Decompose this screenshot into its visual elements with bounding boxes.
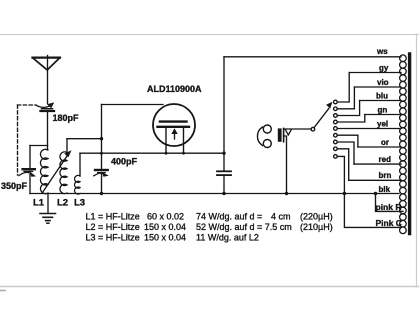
svg-text:(210µH): (210µH) xyxy=(300,222,333,232)
tapped coil core bar xyxy=(408,54,411,234)
wire contact6 to or xyxy=(337,135,358,147)
svg-text:L1: L1 xyxy=(33,198,45,209)
wire brn tap xyxy=(349,179,401,181)
node pink R junction xyxy=(374,192,377,195)
svg-text:gn: gn xyxy=(378,106,388,115)
gang dashed link vertical xyxy=(17,105,19,175)
wire L3 to phones line xyxy=(80,152,224,154)
svg-text:L3: L3 xyxy=(74,198,85,209)
wire contact7 to red xyxy=(337,142,354,164)
svg-text:brn: brn xyxy=(379,171,392,180)
wire gate top to transistor xyxy=(102,104,164,106)
trimmer capacitor 400pF xyxy=(94,170,109,177)
trimmer capacitor 180pF xyxy=(36,102,54,111)
tapped coil loops xyxy=(400,55,407,234)
wire L3 top lead xyxy=(79,153,81,176)
wire gate line xyxy=(67,138,102,140)
wire jack tip to switch xyxy=(284,128,311,130)
wire antenna stem xyxy=(47,56,49,104)
wire contact9 to blk xyxy=(337,156,344,193)
wire contact1 to gy xyxy=(337,73,349,103)
capacitor across phones xyxy=(217,171,231,175)
wire tank top rail xyxy=(30,145,48,147)
scan frame top line xyxy=(0,34,419,36)
wire output riser xyxy=(223,57,225,153)
inductor L1 xyxy=(40,149,48,193)
wire cap bottom lead xyxy=(223,175,225,193)
wire gn tap xyxy=(365,114,401,116)
switch contact 8 xyxy=(334,147,338,151)
wire gate riser xyxy=(101,105,103,139)
wire jack sleeve down xyxy=(284,136,287,194)
svg-text:L2: L2 xyxy=(57,198,68,209)
wire L2 top to gate line xyxy=(66,139,68,153)
svg-text:L3 = HF-Litze: L3 = HF-Litze xyxy=(86,233,140,243)
ground rail wire xyxy=(30,193,399,195)
inductor L3 xyxy=(75,175,80,194)
switch contact 7 xyxy=(334,140,338,144)
svg-text:Pink C: Pink C xyxy=(376,218,402,228)
scan frame right line xyxy=(416,34,418,287)
wire contact4 to gn xyxy=(337,115,365,123)
wire ws feed xyxy=(224,56,401,58)
wire antenna to tank xyxy=(47,111,49,150)
switch contact 3 xyxy=(334,114,338,118)
wire contact5 yel tap xyxy=(337,128,401,130)
switch contact 4 xyxy=(334,120,338,124)
wire or tap xyxy=(358,146,401,148)
antenna xyxy=(33,58,61,70)
ground xyxy=(40,194,56,224)
node 400pF crossing xyxy=(100,152,103,155)
wire contact8 to brn xyxy=(337,149,349,181)
svg-text:4 cm: 4 cm xyxy=(271,212,291,222)
wire 350pF bottom lead xyxy=(29,172,31,194)
node transistor pin right xyxy=(182,152,185,155)
coupling arrow through L1 L2 xyxy=(43,150,72,192)
gang dashed link horizontal xyxy=(18,104,37,106)
node drain line junction xyxy=(222,152,225,155)
svg-text:74 W/dg. auf d =: 74 W/dg. auf d = xyxy=(196,212,262,222)
switch contact 6 xyxy=(334,133,338,137)
wire gy tap xyxy=(349,72,401,74)
switch contact 9 xyxy=(334,155,338,159)
switch pivot xyxy=(311,127,315,131)
variable capacitor 350pF xyxy=(19,169,36,177)
wire vio tap xyxy=(354,86,401,88)
node blk junction xyxy=(343,192,346,195)
node 400pF ground xyxy=(100,192,103,195)
wire contact3 to blu xyxy=(337,101,359,116)
wire pink C drop xyxy=(344,194,401,228)
node sleeve ground xyxy=(285,192,288,195)
switch arm xyxy=(314,102,332,128)
svg-text:or: or xyxy=(381,138,389,147)
svg-text:350pF: 350pF xyxy=(1,181,28,191)
node gate junction xyxy=(100,137,103,140)
wire contact2 to vio xyxy=(337,87,354,109)
wire red tap xyxy=(354,163,401,165)
wire blu tap xyxy=(360,100,401,102)
wire pink R drop xyxy=(376,194,404,212)
wire cap top lead xyxy=(223,153,225,171)
svg-text:blk: blk xyxy=(379,185,391,194)
wire 400pF bottom lead xyxy=(101,173,103,194)
svg-text:L1 = HF-Litze: L1 = HF-Litze xyxy=(86,212,140,222)
switch contact 5 xyxy=(334,127,338,131)
svg-text:(220µH): (220µH) xyxy=(300,212,333,222)
svg-text:150 x 0.04: 150 x 0.04 xyxy=(144,222,186,232)
svg-text:yel: yel xyxy=(377,120,388,129)
svg-text:400pF: 400pF xyxy=(111,157,138,167)
switch contact 2 xyxy=(334,107,338,111)
scan frame bottom line xyxy=(0,286,419,288)
inductor L2 xyxy=(60,152,67,194)
headphone xyxy=(257,125,271,148)
svg-text:red: red xyxy=(379,155,392,164)
wire 400pF top lead xyxy=(101,139,103,170)
node cap ground xyxy=(222,192,225,195)
svg-text:180pF: 180pF xyxy=(53,113,80,123)
wire 350pF top lead xyxy=(29,146,31,170)
svg-text:ALD110900A: ALD110900A xyxy=(147,84,202,94)
svg-text:ws: ws xyxy=(376,47,388,56)
jack plug xyxy=(278,128,292,141)
svg-text:60 x 0.02: 60 x 0.02 xyxy=(147,212,184,222)
svg-text:11 W/dg. auf L2: 11 W/dg. auf L2 xyxy=(196,233,259,243)
svg-text:52 W/dg. auf d = 7.5 cm: 52 W/dg. auf d = 7.5 cm xyxy=(196,222,292,232)
scan mark left xyxy=(0,290,5,292)
switch contact 1 xyxy=(334,100,338,104)
node transistor pin left xyxy=(165,152,168,155)
svg-text:150 x 0.04: 150 x 0.04 xyxy=(144,233,186,243)
svg-text:blu: blu xyxy=(376,92,388,101)
svg-text:pink R: pink R xyxy=(376,202,402,212)
transistor U1 ALD110900A xyxy=(153,104,195,153)
svg-text:vio: vio xyxy=(377,78,389,87)
svg-text:gy: gy xyxy=(379,64,389,73)
svg-text:L2 = HF-Litze: L2 = HF-Litze xyxy=(86,222,140,232)
